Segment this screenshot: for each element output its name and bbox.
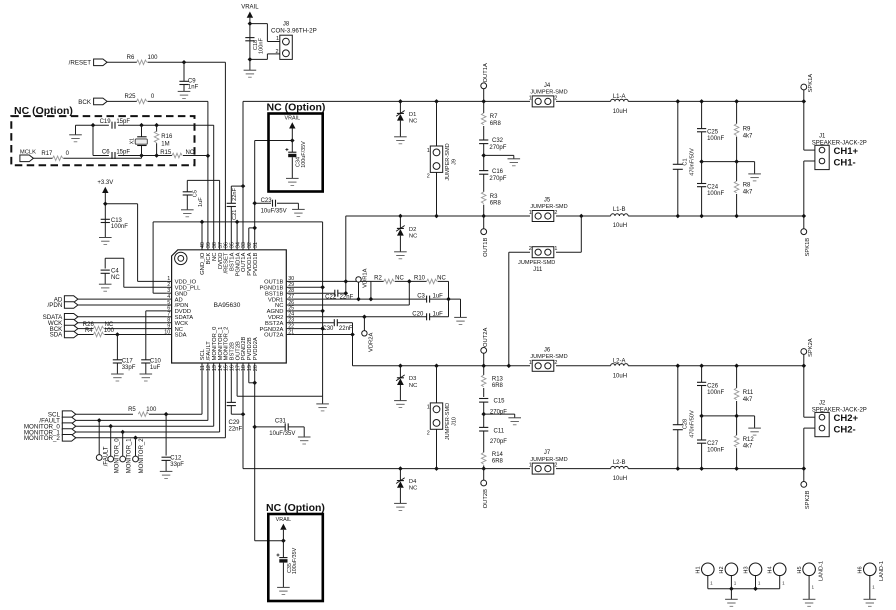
capacitor C27: [697, 416, 724, 469]
diode D4: [396, 466, 417, 503]
svg-text:VRAIL: VRAIL: [285, 116, 301, 122]
svg-text:NC: NC: [409, 233, 417, 239]
svg-text:470nF/50V: 470nF/50V: [690, 148, 696, 176]
wire DVDD pin 37 to C5: [187, 180, 219, 249]
port MONITOR_2: [24, 435, 76, 443]
svg-text:MONITOR_0: MONITOR_0: [114, 438, 120, 474]
svg-text:JUMPER-SMD: JUMPER-SMD: [518, 260, 555, 266]
wire WCK net: [78, 322, 167, 324]
svg-text:R11: R11: [743, 390, 754, 396]
ground below C4: [99, 273, 112, 291]
svg-text:NC: NC: [437, 275, 446, 281]
svg-text:H2: H2: [719, 566, 725, 573]
svg-text:SPK2B: SPK2B: [805, 490, 811, 509]
jumper J10: [427, 366, 458, 469]
wire PGND1B pin 29: [291, 286, 322, 288]
svg-text:SDA: SDA: [50, 332, 64, 339]
svg-text:10uF/35V: 10uF/35V: [269, 431, 295, 437]
svg-text:C6: C6: [102, 150, 110, 156]
svg-text:SPK1A: SPK1A: [808, 74, 814, 93]
svg-text:VRAIL: VRAIL: [241, 5, 259, 11]
resistor R10: [414, 275, 447, 283]
inductor L2-A: [611, 358, 629, 379]
svg-text:100nF: 100nF: [111, 224, 128, 230]
hole H2: [719, 563, 738, 589]
node J10 top: [434, 364, 439, 369]
capacitor C22 (BST1B): [291, 290, 353, 301]
svg-text:2: 2: [554, 360, 557, 366]
svg-text:R3: R3: [490, 194, 498, 200]
svg-text:15pF: 15pF: [116, 119, 130, 125]
wire VRAIL vertical (pins 31/32): [249, 141, 292, 250]
resistor R17: [41, 151, 69, 160]
svg-text:1uF: 1uF: [433, 294, 444, 300]
wire MONITOR_1 net: [76, 363, 220, 432]
svg-text:MONITOR_1: MONITOR_1: [126, 438, 132, 474]
hole H1: [696, 563, 715, 589]
resistor R13: [481, 366, 503, 397]
node J9 bottom: [434, 214, 439, 219]
wire MCLK net: [33, 156, 141, 159]
node C3-C20 link: [446, 297, 451, 302]
hole H6: [858, 561, 886, 599]
node SPK1B row: [802, 214, 807, 219]
wire PGND2B pin 17 to ground: [237, 363, 323, 404]
node C22-OUT1B: [344, 291, 349, 296]
wire OUT2B row: [243, 468, 804, 470]
svg-text:C10: C10: [150, 358, 162, 364]
svg-text:CH2-: CH2-: [834, 424, 856, 435]
svg-text:33pF: 33pF: [170, 462, 184, 468]
svg-text:OUT2A: OUT2A: [483, 328, 489, 347]
node R11 top: [734, 364, 739, 369]
svg-text:PVDD1B: PVDD1B: [253, 252, 259, 275]
wire VRAIL vertical bottom (pin 20): [255, 363, 284, 541]
svg-text:C13: C13: [111, 218, 123, 224]
svg-text:NC: NC: [409, 383, 417, 389]
svg-text:D2: D2: [409, 227, 416, 233]
node H3 join: [753, 586, 758, 591]
svg-text:D1: D1: [409, 112, 416, 118]
svg-text:4k7: 4k7: [743, 397, 753, 403]
wire mid row ch1: [702, 162, 755, 174]
node VDR1A stem: [356, 297, 361, 302]
svg-text:2: 2: [427, 431, 430, 437]
svg-text:BA95630: BA95630: [214, 302, 241, 309]
wire BCK net: [107, 101, 208, 249]
wire PGND2A pin 22: [291, 328, 322, 330]
svg-text:100nF: 100nF: [707, 448, 724, 454]
node R2-R10: [407, 279, 412, 284]
wire OUT2A row: [353, 365, 804, 367]
node OUT1B row-vert: [344, 279, 349, 284]
port SDATA: [43, 314, 78, 322]
port BCK (top): [78, 98, 107, 106]
port WCK: [48, 319, 78, 327]
wire AD net: [78, 298, 167, 300]
svg-text:2: 2: [554, 463, 557, 469]
wire J2 pin2 to SPK2B: [804, 428, 815, 481]
svg-text:4k7: 4k7: [743, 189, 753, 195]
capacitor C5: [183, 190, 204, 207]
node GND row pin 40: [200, 220, 205, 225]
port MONITOR_0: [24, 423, 76, 431]
capacitor C11: [479, 427, 507, 445]
wire VRAIL to C18/GND: [249, 18, 251, 70]
testpoint VDR2A: [362, 317, 375, 352]
svg-text:/PDN: /PDN: [48, 302, 63, 309]
wire +3.3V to pin 1: [105, 193, 166, 281]
wire to J8 pin 2: [250, 54, 280, 60]
svg-text:J11: J11: [533, 267, 543, 273]
wire SPK2A to J2 pin1: [804, 366, 815, 417]
port /FAULT: [39, 417, 75, 425]
node R16 bottom: [154, 153, 159, 158]
port SDA: [50, 331, 78, 339]
capacitor C3: [417, 294, 443, 303]
connector J2 SPEAKER-JACK-2P: [812, 401, 867, 437]
svg-text:22nF: 22nF: [229, 426, 243, 432]
node X1 bottom: [139, 153, 144, 158]
wire mid row ch2: [702, 416, 755, 428]
svg-text:15pF: 15pF: [116, 150, 130, 156]
node C21-OUT1A: [241, 184, 246, 189]
port /PDN: [48, 302, 78, 310]
ground below PGND row: [316, 404, 329, 411]
node SPK2B row: [802, 466, 807, 471]
svg-text:J7: J7: [544, 450, 551, 456]
capacitor C15: [479, 398, 507, 415]
capacitor C6: [102, 150, 131, 160]
svg-text:SDA: SDA: [175, 333, 187, 339]
svg-text:1uF: 1uF: [150, 365, 161, 371]
ground below D2: [394, 252, 407, 259]
svg-text:10uH: 10uH: [613, 109, 627, 115]
svg-text:VDR2A: VDR2A: [369, 333, 375, 352]
wire SPK1A to J1 pin1: [804, 101, 815, 150]
svg-text:2: 2: [554, 210, 557, 216]
node R2-link VDR1: [369, 297, 374, 302]
wire R2-R10 row: [395, 280, 427, 282]
svg-text:R4: R4: [85, 328, 93, 334]
svg-text:6R8: 6R8: [490, 201, 502, 207]
svg-text:R8: R8: [743, 183, 751, 189]
inductor L1-A: [611, 94, 629, 115]
svg-text:C5: C5: [192, 190, 198, 197]
capacitor C9: [179, 62, 198, 91]
power VRAIL in bottom NC box: [276, 517, 292, 530]
svg-text:2: 2: [276, 49, 279, 55]
svg-text:270pF: 270pF: [490, 439, 507, 445]
wire /RESET net: [107, 62, 225, 250]
ground below D1: [394, 137, 407, 144]
hole H3: [743, 563, 762, 589]
svg-text:OUT2A: OUT2A: [264, 333, 283, 339]
svg-text:CH1+: CH1+: [834, 146, 859, 157]
capacitor C25: [697, 101, 724, 161]
hole H5: [797, 561, 825, 599]
svg-text:10uF/35V: 10uF/35V: [261, 209, 287, 215]
wire holes common: [708, 588, 780, 590]
svg-text:SPK2A: SPK2A: [808, 338, 814, 357]
ground below C35: [277, 563, 290, 595]
ground below C10: [140, 374, 153, 381]
wire crystal bottom row: [93, 155, 208, 157]
svg-text:VRAIL: VRAIL: [276, 517, 292, 523]
svg-text:JUMPER-SMD: JUMPER-SMD: [445, 143, 451, 180]
svg-text:1: 1: [529, 360, 532, 366]
ground H6: [864, 599, 877, 606]
ground holes H1-H4: [725, 589, 738, 607]
svg-text:D4: D4: [409, 479, 417, 485]
node SDA-C17: [115, 332, 120, 337]
svg-text:C4: C4: [111, 269, 119, 275]
svg-text:OUT2B: OUT2B: [483, 489, 489, 508]
svg-text:22nF: 22nF: [232, 188, 238, 201]
wire R2 row to VDR1 row: [370, 281, 372, 299]
capacitor C13: [101, 218, 129, 230]
svg-text:JUMPER-SMD: JUMPER-SMD: [530, 354, 567, 360]
svg-text:C25: C25: [707, 130, 719, 136]
capacitor C18: [245, 37, 264, 53]
wire OUT1A from pin 33: [242, 101, 244, 249]
node J10 bottom: [434, 466, 439, 471]
resistor R5: [128, 407, 157, 417]
svg-text:JUMPER-SMD: JUMPER-SMD: [530, 457, 567, 463]
jumper J9: [427, 101, 458, 216]
node R9 top: [734, 99, 739, 104]
wire /FAULT net: [76, 363, 208, 420]
ground in crystal box: [69, 125, 82, 142]
wire DVDD pin 6 to C10: [146, 311, 167, 360]
testpoint SPK2A: [801, 338, 814, 366]
svg-text:31: 31: [253, 242, 259, 248]
svg-text:100: 100: [146, 407, 157, 413]
wire crystal top row: [76, 125, 214, 250]
node MONITOR_1 testpoint: [120, 430, 125, 435]
svg-text:2: 2: [554, 95, 557, 101]
wire OUT2A net (pin 21): [291, 323, 352, 366]
resistor R14: [481, 431, 503, 469]
svg-text:/RESET: /RESET: [69, 60, 92, 67]
power +3.3V: [97, 180, 113, 193]
svg-text:+3.3V: +3.3V: [97, 180, 113, 186]
testpoint OUT1B: [481, 216, 489, 257]
ground below D3: [394, 401, 407, 408]
wire VDR2 net (pin 24): [291, 299, 448, 317]
svg-text:JUMPER-SMD: JUMPER-SMD: [445, 403, 451, 440]
node VRAIL NC-box bottom: [281, 538, 286, 543]
capacitor C26: [697, 366, 724, 416]
svg-text:J4: J4: [544, 83, 551, 89]
wire OUT1A row: [243, 100, 804, 102]
testpoint MONITOR_0: [108, 426, 121, 473]
node BCK-R15 junction: [206, 154, 211, 159]
svg-text:J2: J2: [819, 401, 826, 407]
svg-text:R12: R12: [743, 437, 755, 443]
svg-text:1: 1: [529, 95, 532, 101]
ground below C17: [111, 374, 124, 381]
svg-text:J10: J10: [452, 417, 458, 426]
node R8 bottom: [734, 214, 739, 219]
wire SCL net: [76, 363, 202, 414]
svg-text:D3: D3: [409, 376, 416, 382]
ground below C13: [99, 223, 112, 245]
svg-text:C3: C3: [417, 294, 425, 300]
crystal X1: [129, 125, 147, 155]
svg-text:C9: C9: [188, 78, 196, 84]
wire J1 pin2 to SPK1B: [804, 161, 815, 229]
svg-text:100: 100: [147, 55, 158, 61]
ground below C34: [286, 157, 299, 185]
svg-text:C26: C26: [707, 383, 719, 389]
hole H4: [768, 563, 787, 589]
ground right of C23: [292, 209, 305, 216]
NC (Option) bottom box title: [266, 502, 325, 514]
svg-text:10uH: 10uH: [613, 476, 627, 482]
node OUT2B-filter: [481, 466, 486, 471]
svg-text:4k7: 4k7: [743, 133, 753, 139]
node C28 bottom: [676, 466, 681, 471]
ground VDR filter: [454, 317, 467, 324]
node OUT2A-C30: [350, 332, 355, 337]
svg-text:22nF: 22nF: [339, 326, 353, 332]
capacitor C35 (100uF/35V): [277, 547, 299, 574]
node R11 mid: [734, 414, 739, 419]
testpoint OUT1A: [481, 63, 489, 101]
svg-text:C23: C23: [261, 198, 273, 204]
svg-text:100uF/35V: 100uF/35V: [301, 141, 307, 168]
svg-text:C15: C15: [494, 398, 506, 404]
svg-text:1: 1: [427, 405, 430, 411]
ground mid ch1 filter: [484, 155, 520, 165]
resistor R25: [124, 94, 154, 104]
svg-text:C12: C12: [170, 455, 182, 461]
node C25 top: [699, 99, 704, 104]
svg-text:PVDD2A: PVDD2A: [253, 337, 259, 360]
NC (Option) top box title: [267, 102, 326, 114]
wire SDA-R4 net: [78, 334, 167, 336]
node VRAIL-J8 top: [248, 21, 253, 26]
testpoint OUT2A: [481, 328, 489, 366]
svg-text:H1: H1: [696, 566, 702, 573]
node C29-OUT2B: [241, 412, 246, 417]
svg-text:H6: H6: [858, 566, 864, 573]
capacitor C4: [101, 269, 121, 282]
diode D2: [396, 214, 417, 252]
svg-text:R10: R10: [414, 275, 426, 281]
wire SDATA net: [78, 316, 167, 318]
svg-text:1: 1: [554, 246, 557, 252]
testpoint MONITOR_2: [133, 438, 146, 474]
wire C4 to pin 2: [105, 258, 166, 287]
testpoint MONITOR_1: [120, 432, 133, 473]
svg-text:SPK1B: SPK1B: [805, 238, 811, 257]
wire MONITOR_2 net: [76, 363, 226, 438]
resistor R9: [734, 101, 753, 161]
svg-text:OUT1B: OUT1B: [483, 237, 489, 256]
capacitor C34 (100uF/35V): [285, 141, 307, 168]
testpoint VDR1A: [356, 268, 369, 299]
op-amp U1 BA95630 body: [172, 250, 287, 363]
svg-text:CON-3.96TH-2P: CON-3.96TH-2P: [271, 28, 317, 35]
svg-text:270pF: 270pF: [489, 145, 506, 151]
wire OUT1B row: [346, 215, 804, 217]
pin numbers/names top (40-31): [200, 242, 259, 276]
svg-text:C16: C16: [492, 169, 504, 175]
svg-text:J8: J8: [283, 22, 290, 28]
svg-text:6R8: 6R8: [492, 459, 504, 465]
svg-text:C22: C22: [325, 295, 337, 301]
wire to J8 pin 1: [250, 24, 280, 42]
svg-text:NC (Option): NC (Option): [267, 102, 326, 114]
svg-text:C31: C31: [275, 419, 287, 425]
svg-text:BCK: BCK: [78, 99, 92, 106]
ground mid ch2: [748, 428, 761, 435]
resistor R15: [160, 150, 195, 158]
ground below C12: [160, 471, 173, 478]
node SPK1A: [802, 99, 807, 104]
svg-text:22nF: 22nF: [340, 295, 354, 301]
svg-text:1nF: 1nF: [188, 85, 199, 91]
wire AGND pin 25: [291, 310, 322, 312]
svg-text:R17: R17: [41, 151, 53, 157]
ground below D4: [394, 503, 407, 510]
node OUT1A-filter: [481, 99, 486, 104]
svg-text:1: 1: [529, 210, 532, 216]
wire VRAIL to C34: [291, 129, 293, 153]
svg-text:R14: R14: [492, 452, 504, 458]
node VDR2A stem: [362, 315, 367, 320]
jumper J7: [529, 450, 568, 474]
svg-text:VDR1A: VDR1A: [363, 268, 369, 287]
capacitor C21 (BST1A): [227, 186, 243, 250]
wire NC pin 26 to R2/R10: [291, 281, 409, 305]
wire PVDD2B pin 19 jog: [249, 363, 255, 383]
wire MONITOR_0 net: [76, 363, 214, 426]
node C26 top: [699, 364, 704, 369]
node +3.3V: [103, 202, 108, 207]
wire BCK-R26 net: [78, 328, 167, 330]
node SCL-C12: [164, 412, 169, 417]
node SPK2A: [802, 364, 807, 369]
NC (Option) top box: [269, 114, 323, 192]
svg-text:470nF/50V: 470nF/50V: [690, 410, 696, 438]
svg-text:C17: C17: [122, 358, 134, 364]
svg-text:100uF/35V: 100uF/35V: [292, 547, 298, 574]
svg-text:C29: C29: [229, 420, 241, 426]
capacitor C28: [673, 366, 696, 469]
svg-text:100nF: 100nF: [707, 191, 724, 197]
svg-text:C11: C11: [494, 428, 505, 434]
capacitor C29 (BST2B): [227, 363, 243, 432]
svg-text:OUT1A: OUT1A: [483, 63, 489, 82]
svg-text:H4: H4: [768, 566, 774, 573]
svg-text:1uF: 1uF: [433, 311, 444, 317]
node VRAIL-C31: [252, 425, 257, 430]
power VRAIL (top): [241, 5, 259, 18]
resistor R4: [85, 328, 115, 337]
connector J1 SPEAKER-JACK-2P: [812, 134, 867, 170]
svg-text:NC: NC: [185, 150, 194, 156]
node C25 mid: [699, 159, 704, 164]
wire OUT2B vertical pin 18: [242, 363, 244, 469]
svg-text:C32: C32: [492, 138, 504, 144]
node pin19-VRAIL: [252, 381, 257, 386]
ground right of C31: [298, 437, 311, 444]
node J11 bottom: [507, 364, 512, 369]
node R12 bottom: [734, 466, 739, 471]
